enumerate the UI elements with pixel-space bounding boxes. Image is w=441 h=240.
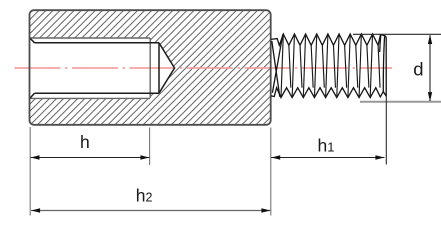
drilled hole outline [30, 38, 175, 99]
dimension h1 [271, 157, 384, 159]
bottom crest zigzag [271, 88, 386, 98]
dimension h [31, 157, 150, 159]
internal thread major lines [30, 38, 151, 98]
top crest zigzag [271, 34, 386, 45]
svg-text:h: h [80, 132, 90, 152]
tapped hole white area [30, 38, 175, 98]
body outline [30, 10, 271, 125]
dimension h2 [31, 210, 271, 212]
end face of stud [384, 36, 387, 96]
dimension d extension lines [353, 33, 441, 35]
centerline [15, 67, 393, 69]
thread runout at body [272, 41, 280, 97]
thread flank lines [281, 34, 380, 98]
svg-text:d: d [413, 59, 423, 80]
extension lines bottom [30, 127, 271, 216]
dimension d line [429, 35, 431, 101]
body (hatched cross-section) [30, 10, 271, 125]
external thread stud [271, 34, 386, 98]
